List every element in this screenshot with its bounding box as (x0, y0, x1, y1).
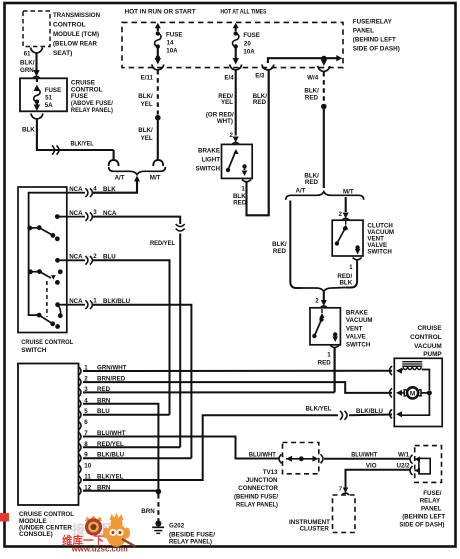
svg-text:BRAKE: BRAKE (346, 309, 368, 316)
module pin 11 (79, 476, 82, 485)
svg-text:BLK/: BLK/ (138, 127, 153, 134)
wire RED/YEL module pin 8 (83, 446, 180, 448)
svg-text:14: 14 (167, 40, 174, 47)
svg-text:BLK: BLK (22, 127, 35, 134)
wire BLK/YEL from E/11 (dashed section) (157, 70, 159, 115)
svg-text:RED: RED (305, 179, 319, 186)
A/T branch wire BLK/RED (left bracket) (290, 201, 302, 289)
connector E/11 (152, 65, 164, 71)
svg-text:RELAY: RELAY (420, 498, 441, 505)
pump junction node (427, 390, 432, 395)
pin 2 terminal (55, 258, 60, 263)
panel internal wire to E/3 and W/4 (268, 58, 339, 63)
connector W/4 (318, 66, 330, 72)
svg-text:RED: RED (253, 99, 267, 106)
svg-text:W/1: W/1 (398, 451, 410, 458)
pump pin 3 connector (390, 409, 393, 418)
panel internal jumper (419, 458, 430, 474)
module pin 4 (79, 400, 82, 409)
svg-text:BLU: BLU (103, 254, 116, 261)
svg-text:2: 2 (230, 132, 234, 139)
svg-text:LIGHT: LIGHT (201, 157, 220, 164)
wire BLK from merge to cruise switch pin 4 (134, 176, 140, 182)
fuse/relay panel dashed box (top) (122, 22, 343, 67)
inline connector in BLK/YEL wire (52, 146, 55, 155)
svg-text:BLU/WHT: BLU/WHT (351, 451, 377, 458)
merge brace into brake vacuum vent valve switch (302, 288, 346, 292)
svg-text:YEL: YEL (141, 101, 153, 108)
module pin 5 (79, 410, 82, 419)
wire BLK/RED solid section (323, 109, 325, 188)
A/T M/T merge arches (109, 160, 119, 166)
svg-text:PANEL: PANEL (421, 506, 442, 513)
svg-text:BLK: BLK (103, 186, 116, 193)
svg-text:BLU/WHT: BLU/WHT (249, 451, 276, 458)
svg-text:HOT AT ALL TIMES: HOT AT ALL TIMES (220, 9, 267, 16)
svg-text:BLK/BLU: BLK/BLU (356, 408, 384, 415)
svg-text:W/4: W/4 (307, 75, 319, 82)
svg-text:CONNECTOR: CONNECTOR (238, 485, 278, 492)
svg-text:E/4: E/4 (224, 74, 234, 81)
svg-text:CLUSTER: CLUSTER (300, 526, 330, 533)
wire BLU module pin 5 (83, 414, 170, 416)
fuse F14 (155, 23, 161, 29)
svg-text:10A: 10A (243, 48, 255, 55)
svg-text:BLK/YEL: BLK/YEL (306, 406, 332, 413)
svg-text:RED: RED (233, 199, 247, 206)
wire BLK/YEL module pin 11 to vacuum pump (83, 415, 338, 480)
svg-text:SEAT): SEAT) (53, 50, 72, 57)
svg-text:RELAY PANEL): RELAY PANEL) (236, 501, 278, 508)
fuse F20 (233, 23, 239, 29)
svg-text:NCA: NCA (69, 186, 83, 193)
wire GRN/WHT module pin 1 to vacuum pump (83, 370, 392, 372)
module pin 1 (79, 367, 82, 376)
transmission control module (TCM) box (23, 11, 50, 47)
module pin 12 (79, 487, 82, 496)
switch pin 3 (67, 216, 85, 218)
pump wiring to pin 3 (401, 393, 429, 415)
wire BLK from switch pin 4 (93, 192, 113, 194)
wire VIO from U2/2 to instrument cluster (346, 470, 411, 488)
wire RED/YEL to module pin 8 (179, 234, 181, 448)
TCM connector pin 61 (31, 48, 43, 54)
bus junction node 2 (28, 269, 33, 274)
svg-text:CRUISE CONTROL: CRUISE CONTROL (21, 339, 73, 346)
svg-text:(BEHIND LEFT: (BEHIND LEFT (402, 514, 445, 521)
svg-text:(BESIDE FUSE/: (BESIDE FUSE/ (169, 532, 215, 539)
cruise control fuse 51 box (20, 78, 67, 111)
svg-text:5A: 5A (45, 102, 53, 109)
cruise control module box (18, 364, 79, 506)
module pin 6 (79, 421, 82, 430)
svg-text:SWITCH: SWITCH (346, 341, 371, 348)
pin 1 of clutch switch (353, 258, 362, 260)
wire BLK/RED from E/3 (268, 70, 270, 216)
svg-text:1: 1 (327, 352, 331, 359)
inline connector BLK/YEL to BLK/BLU (340, 411, 343, 420)
vacuum pump box (394, 358, 442, 426)
svg-text:BLK: BLK (339, 279, 352, 286)
svg-text:U2/2: U2/2 (397, 463, 411, 470)
svg-text:BRN: BRN (141, 508, 155, 515)
svg-text:BLK/BLU: BLK/BLU (103, 298, 131, 305)
svg-text:(BEHIND LEFT: (BEHIND LEFT (353, 36, 396, 43)
svg-text:VACUUM: VACUUM (346, 317, 373, 324)
M/T branch wire to clutch vacuum vent valve switch (345, 197, 347, 212)
module pin 8 (79, 443, 82, 452)
wire BLK/BLU from switch pin 1 to module pin 9 (93, 305, 191, 459)
wire BLU/WHT module pin 7 to TV13 (83, 437, 279, 459)
svg-text:(BEHIND FUSE/: (BEHIND FUSE/ (234, 493, 278, 500)
svg-text:PUMP: PUMP (423, 351, 442, 358)
inline connector on RED/YEL wire (176, 224, 185, 227)
watermark (62, 513, 136, 554)
wire BRN dashed to ground (157, 494, 159, 521)
svg-text:FUSE: FUSE (45, 87, 62, 94)
svg-text:61: 61 (24, 51, 31, 58)
svg-text:JUNCTION: JUNCTION (246, 477, 278, 484)
pump pin 2 connector (390, 388, 393, 397)
bus junction node 1 (27, 226, 32, 231)
red watermark tab at left edge (0, 513, 9, 522)
svg-text:A/T: A/T (296, 187, 306, 194)
svg-text:A/T: A/T (115, 174, 125, 181)
svg-text:WHT): WHT) (217, 118, 233, 125)
wire down to A/T arch (113, 150, 115, 161)
svg-text:1: 1 (241, 185, 245, 192)
svg-text:BLK/YEL: BLK/YEL (71, 140, 94, 147)
brake vacuum vent valve switch box (310, 308, 340, 345)
module pin 3 (79, 388, 82, 397)
vent valve solenoid (402, 361, 422, 363)
svg-text:PANEL: PANEL (353, 27, 374, 34)
svg-text:BLK/: BLK/ (304, 88, 319, 95)
svg-text:YEL: YEL (221, 99, 233, 106)
svg-text:G202: G202 (169, 523, 185, 530)
svg-text:RED: RED (318, 359, 332, 366)
clutch switch contacts (335, 241, 339, 245)
pump pin 1 connector (390, 366, 393, 375)
svg-text:VACUUM: VACUUM (414, 343, 442, 350)
svg-text:6: 6 (84, 419, 88, 426)
svg-text:SWITCH: SWITCH (367, 249, 392, 256)
svg-text:SIDE OF DASH): SIDE OF DASH) (353, 45, 400, 52)
svg-text:CONSOLE): CONSOLE) (19, 531, 53, 538)
svg-text:(BELOW REAR: (BELOW REAR (53, 41, 97, 48)
svg-text:CONTROL: CONTROL (53, 22, 86, 29)
wire BRN module pin 4 to ground junction (83, 404, 158, 492)
svg-text:BLK/: BLK/ (138, 93, 153, 100)
svg-text:1: 1 (93, 297, 97, 304)
pin 1 terminal (55, 302, 60, 307)
svg-text:51: 51 (45, 94, 52, 101)
mechanical link (dashed) (46, 281, 48, 317)
A/T M/T split brace (286, 192, 364, 200)
module pin 2 (79, 378, 82, 387)
wire BLU/WHT from TV13 to W/1 (324, 458, 411, 460)
ground junction node (156, 489, 162, 495)
svg-text:FUSE/: FUSE/ (423, 490, 442, 497)
brake light switch box (222, 144, 253, 178)
svg-text:FUSE: FUSE (71, 93, 89, 100)
svg-text:RED: RED (273, 248, 287, 255)
cruise control switch box (18, 187, 67, 333)
fuse F51 symbol (34, 85, 40, 92)
svg-text:1: 1 (349, 264, 353, 271)
svg-text:2: 2 (315, 297, 319, 304)
svg-text:BRAKE: BRAKE (198, 148, 220, 155)
wire BLK/GRN from TCM to fuse 51 (35, 53, 37, 72)
svg-text:7: 7 (339, 487, 342, 493)
svg-text:NCA: NCA (69, 298, 83, 305)
pump internal wiring (422, 370, 430, 391)
pin 1 of brake light switch (242, 180, 251, 182)
TV13 connector symbols (279, 454, 282, 463)
svg-text:VALVE: VALVE (346, 333, 366, 340)
svg-text:VIO: VIO (366, 462, 377, 469)
module pin 10 (79, 465, 82, 474)
svg-text:SIDE OF DASH): SIDE OF DASH) (399, 521, 444, 528)
fuse/relay panel dashed box (bottom) (415, 446, 442, 483)
svg-text:FUSE: FUSE (243, 32, 260, 39)
svg-text:TV13: TV13 (263, 469, 278, 476)
svg-text:CRUISE: CRUISE (418, 325, 443, 332)
svg-text:M/T: M/T (343, 188, 354, 195)
wire BLK/RED from W/4 (dashed section) (323, 72, 325, 103)
svg-text:M/T: M/T (150, 174, 161, 181)
svg-text:RED: RED (305, 95, 319, 102)
splice node on BLK/YEL wire (155, 115, 161, 121)
svg-text:NCA: NCA (103, 210, 117, 217)
clutch vacuum vent valve switch box (332, 220, 363, 256)
instrument cluster dashed box (333, 495, 356, 533)
switch contact set/coast (37, 225, 42, 230)
connector E/3 (262, 65, 274, 71)
svg-text:10A: 10A (166, 48, 178, 55)
switch contact resume (37, 269, 42, 274)
svg-text:RELAY PANEL): RELAY PANEL) (71, 107, 113, 114)
svg-text:(ABOVE FUSE/: (ABOVE FUSE/ (71, 100, 113, 107)
connector E/4 (230, 65, 242, 71)
svg-text:M: M (410, 391, 416, 398)
svg-text:BLK/: BLK/ (20, 60, 35, 67)
svg-text:MODULE (TCM): MODULE (TCM) (53, 31, 99, 38)
svg-text:CONTROL: CONTROL (410, 334, 442, 341)
svg-text:3: 3 (93, 209, 97, 216)
switch pin 4 (67, 192, 85, 194)
svg-text:GRN: GRN (20, 67, 34, 74)
module pin 7 (79, 432, 82, 441)
svg-text:2: 2 (338, 211, 342, 218)
A/T M/T merge brace (109, 167, 166, 175)
svg-text:TRANSMISSION: TRANSMISSION (53, 12, 100, 19)
switch pin 2 (67, 259, 85, 261)
wire BLK/BLU module pin 9 (83, 457, 191, 459)
wire RED module pin 3 (83, 391, 335, 393)
module pin 9 (79, 454, 82, 463)
switch internal bus wire (29, 193, 67, 315)
svg-text:HOT IN RUN OR START: HOT IN RUN OR START (125, 9, 196, 16)
wire BRN module pin 12 (83, 490, 158, 492)
svg-text:NCA: NCA (69, 254, 83, 261)
wire RED/YEL from E/4 (235, 70, 237, 136)
connector below fuse 51 (31, 114, 43, 120)
svg-text:2: 2 (93, 253, 97, 260)
junction node in panel (321, 56, 326, 61)
TV13 junction connector dashed box (283, 443, 319, 474)
svg-text:SWITCH: SWITCH (196, 166, 221, 173)
switch pin 1 (67, 304, 85, 306)
wire BLK/BLU to pump pin 3 (349, 414, 392, 417)
pin 1 of brake vvv switch (330, 345, 339, 347)
svg-text:YEL: YEL (141, 135, 153, 142)
wire BRN/RED module pin 2 to vacuum pump (83, 382, 392, 393)
svg-text:NCA: NCA (69, 210, 83, 217)
svg-text:VENT: VENT (346, 326, 363, 333)
splice node on BLK/RED wire (321, 104, 327, 110)
pin 3 terminal (55, 214, 60, 219)
svg-text:E/11: E/11 (141, 74, 154, 81)
svg-text:E/3: E/3 (255, 73, 265, 80)
svg-text:20: 20 (244, 40, 251, 47)
pump motor M1 (407, 387, 418, 398)
wire to pin 2 of brake vacuum vent valve switch (323, 291, 325, 302)
brake light switch contacts (226, 168, 230, 172)
svg-text:4: 4 (93, 185, 97, 192)
svg-text:FUSE: FUSE (166, 31, 183, 38)
svg-text:www.dzsc.com: www.dzsc.com (71, 545, 128, 554)
wire BLU from switch pin 2 to module pin 5 (93, 260, 170, 414)
wire BLK/YEL solid section to M/T arch (157, 120, 159, 161)
brake vvv switch contacts (312, 334, 316, 338)
svg-text:BLK/: BLK/ (272, 241, 287, 248)
wire NCA from switch pin 3 (93, 217, 180, 224)
switch contact off/on (37, 313, 42, 318)
svg-text:FUSE/RELAY: FUSE/RELAY (353, 18, 393, 25)
svg-text:10: 10 (84, 463, 91, 470)
ground G202 symbol (155, 521, 161, 527)
svg-text:RED/YEL: RED/YEL (150, 240, 175, 247)
svg-text:SWITCH: SWITCH (21, 347, 47, 354)
svg-text:RELAY PANEL): RELAY PANEL) (169, 539, 212, 546)
